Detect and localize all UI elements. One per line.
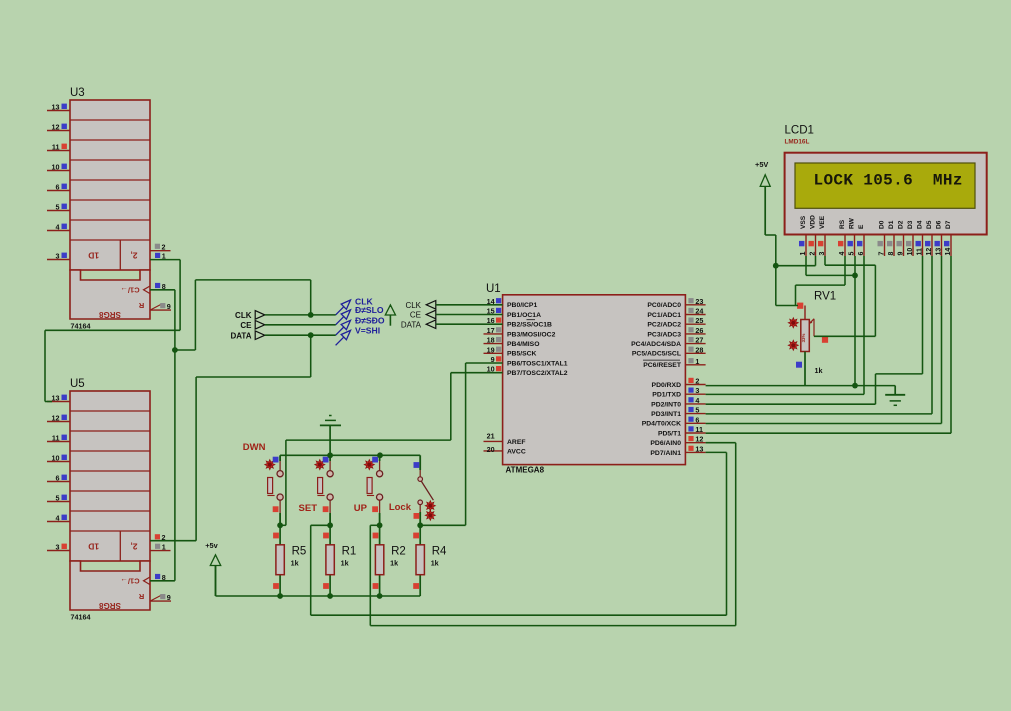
LCD1 pin 9 D2 xyxy=(897,220,905,256)
U1 pin 10 PB7/TOSC2/XTAL2 xyxy=(487,365,568,377)
LCD1 pin 3 VEE xyxy=(818,215,826,256)
svg-text:UP: UP xyxy=(354,503,368,514)
wire resistor bottom rail xyxy=(216,566,421,597)
svg-text:U5: U5 xyxy=(70,378,85,390)
svg-text:R: R xyxy=(138,301,144,310)
svg-text:CLK: CLK xyxy=(235,311,252,320)
wire +5V to VDD and RV1 top xyxy=(765,235,815,306)
output terminal CE xyxy=(240,321,264,331)
svg-text:10: 10 xyxy=(907,248,914,256)
wire junction to U5 pin8 xyxy=(150,350,175,581)
svg-text:13: 13 xyxy=(52,102,60,111)
U5 pin 4 xyxy=(47,513,70,522)
svg-text:D6: D6 xyxy=(936,220,943,229)
U1 pin 23 PC0/ADC0 xyxy=(647,297,705,309)
U3 pin 2 (unconnected stub) xyxy=(150,243,171,252)
svg-text:PB3/MOSI/OC2: PB3/MOSI/OC2 xyxy=(507,331,556,338)
U3 pin 12 xyxy=(47,122,70,131)
svg-text:R1: R1 xyxy=(342,546,357,558)
U1 pin 11 PD5/T1 xyxy=(658,425,706,437)
potentiometer RV1 1k xyxy=(788,291,836,386)
wire U1 PD4 to LCD D6 xyxy=(706,256,942,424)
svg-text:SRG8: SRG8 xyxy=(99,601,121,610)
svg-text:26: 26 xyxy=(695,326,703,335)
LCD1 pin 1 VSS xyxy=(799,215,807,256)
U3 pin 13 xyxy=(47,102,70,111)
wire U1 PD5 to LCD D7 xyxy=(706,256,951,433)
svg-text:PC4/ADC4/SDA: PC4/ADC4/SDA xyxy=(631,341,681,348)
svg-text:VEE: VEE xyxy=(819,215,826,229)
U3 pin 8 clock wedge xyxy=(144,282,166,294)
wire U1 PB6 to Lock node xyxy=(420,363,502,525)
U3 pin 10 xyxy=(47,162,70,171)
input terminal CE xyxy=(410,310,436,320)
svg-text:R: R xyxy=(138,592,144,601)
svg-text:+5V: +5V xyxy=(755,160,768,169)
svg-text:23: 23 xyxy=(695,297,703,306)
junction DATA xyxy=(308,332,314,338)
svg-text:6: 6 xyxy=(858,252,865,256)
svg-text:PC0/ADC0: PC0/ADC0 xyxy=(647,302,681,309)
resistor R4 1k xyxy=(413,525,447,596)
svg-text:1k: 1k xyxy=(291,559,299,568)
wire junction to CLK line xyxy=(175,280,311,350)
U1 pin 4 PD2/INT0 xyxy=(651,396,705,408)
svg-text:3: 3 xyxy=(56,251,60,260)
svg-text:CLK: CLK xyxy=(405,301,421,310)
svg-text:9: 9 xyxy=(167,593,171,602)
svg-text:D0: D0 xyxy=(879,220,886,229)
U3 pin 4 xyxy=(47,222,70,231)
wire U1 PD2 to LCD D4 xyxy=(706,256,923,404)
junction CLK xyxy=(308,312,314,318)
LCD1 pin 5 RW xyxy=(848,217,856,256)
IC U3 74164 shift register xyxy=(70,87,150,331)
wire U3 pin1 run to U5 pin13 xyxy=(45,330,180,401)
junction rail/UP xyxy=(377,452,383,458)
wire button top rail xyxy=(280,454,420,456)
svg-text:C1/→: C1/→ xyxy=(120,577,139,586)
svg-text:PD1/TXD: PD1/TXD xyxy=(652,392,681,399)
U1 pin 19 PB5/SCK xyxy=(484,345,537,357)
svg-text:PC3/ADC3: PC3/ADC3 xyxy=(647,331,681,338)
svg-text:5: 5 xyxy=(849,252,856,256)
U1 pin 6 PD4/T0/XCK xyxy=(642,415,706,427)
svg-text:Ð≠SLO: Ð≠SLO xyxy=(355,305,384,315)
U5 pin 12 xyxy=(47,413,70,422)
U5 pin 11 xyxy=(47,433,70,442)
svg-text:U1: U1 xyxy=(486,283,501,295)
svg-text:PB2/SS/OC1B: PB2/SS/OC1B xyxy=(507,322,552,329)
svg-text:18: 18 xyxy=(487,336,495,345)
output terminal CLK xyxy=(235,311,265,321)
svg-text:13: 13 xyxy=(695,444,703,453)
wire U3 pin8 to junction xyxy=(150,290,175,350)
svg-text:PD7/AIN1: PD7/AIN1 xyxy=(650,450,681,457)
net label arrow (overlapped) xyxy=(336,305,384,325)
U1 pin 20 AVCC xyxy=(484,445,526,456)
wire U1 PD1 to LCD E xyxy=(706,256,864,394)
wire U1 PB7 to DWN node xyxy=(280,373,503,526)
wire LCD RW to ground rail xyxy=(854,256,856,386)
svg-text:PB4/MISO: PB4/MISO xyxy=(507,341,539,348)
svg-text:9: 9 xyxy=(898,252,905,256)
wire U1 PD6 to UP node xyxy=(370,443,735,626)
U5 pin 3 xyxy=(47,542,70,551)
junction +5V/VDD xyxy=(773,263,779,269)
svg-text:V=SHI: V=SHI xyxy=(355,325,380,335)
U5 pin 1 (unconnected stub) xyxy=(150,543,171,552)
junction SET/R1 xyxy=(327,522,333,528)
U1 pin 25 PC2/ADC2 xyxy=(647,316,705,328)
svg-text:2,: 2, xyxy=(130,250,137,260)
svg-text:ATMEGA8: ATMEGA8 xyxy=(506,466,545,475)
wire CE terminal line xyxy=(265,324,336,326)
svg-text:D3: D3 xyxy=(907,220,914,229)
svg-text:28: 28 xyxy=(695,345,703,354)
U1 pin 1 PC6/RESET xyxy=(643,357,706,369)
svg-text:PC6/RESET: PC6/RESET xyxy=(643,362,682,369)
svg-text:20: 20 xyxy=(487,445,495,454)
svg-text:1k: 1k xyxy=(341,559,349,568)
svg-text:PD5/T1: PD5/T1 xyxy=(658,430,681,437)
svg-text:PC5/ADC5/SCL: PC5/ADC5/SCL xyxy=(632,351,681,358)
svg-text:LMD16L: LMD16L xyxy=(785,139,810,146)
svg-text:14: 14 xyxy=(945,248,952,256)
svg-text:2,: 2, xyxy=(130,541,137,551)
U1 pin 21 AREF xyxy=(484,432,526,446)
svg-text:1k: 1k xyxy=(815,366,823,375)
U1 pin 28 PC5/ADC5/SCL xyxy=(632,345,706,357)
U1 pin 2 PD0/RXD xyxy=(652,377,706,389)
resistor R1 1k xyxy=(323,525,356,596)
svg-text:R4: R4 xyxy=(432,546,447,558)
junction UP/R2 xyxy=(377,522,383,528)
svg-text:R5: R5 xyxy=(292,546,307,558)
push button DWN xyxy=(243,442,283,525)
U3 pin 1 xyxy=(155,252,166,261)
wire U3 pin1 to bus xyxy=(150,260,180,331)
wire LCD VEE to RV1 wiper xyxy=(814,256,875,336)
U3 pin 11 xyxy=(47,142,70,151)
svg-text:PB5/SCK: PB5/SCK xyxy=(507,351,537,358)
wire U1 PD0 ground rail xyxy=(706,385,896,387)
svg-text:SET: SET xyxy=(299,503,318,514)
junction Lock/R4 xyxy=(417,522,423,528)
svg-text:21: 21 xyxy=(487,432,495,441)
wire CE to U1 PB1 xyxy=(436,314,503,316)
ground (LCD area) xyxy=(885,386,905,406)
LCD1 pin 2 VDD xyxy=(809,215,817,256)
svg-text:24: 24 xyxy=(695,307,703,316)
svg-text:VDD: VDD xyxy=(810,215,817,229)
U5 pin 9 (unconnected stub) xyxy=(150,593,171,602)
svg-text:1k: 1k xyxy=(390,559,398,568)
U1 pin 5 PD3/INT1 xyxy=(651,406,705,418)
net label arrow V=SHI xyxy=(336,325,380,345)
svg-text:3: 3 xyxy=(695,386,699,395)
svg-text:6: 6 xyxy=(56,473,60,482)
wire CLK terminal line xyxy=(265,314,336,316)
svg-text:PD6/AIN0: PD6/AIN0 xyxy=(650,440,681,447)
U5 pin 13 xyxy=(47,393,70,402)
svg-text:U3: U3 xyxy=(70,87,85,99)
power symbol +5v (buttons area) xyxy=(205,541,221,596)
svg-text:PB1/OC1A: PB1/OC1A xyxy=(507,312,541,319)
svg-text:CE: CE xyxy=(240,321,252,330)
svg-text:12: 12 xyxy=(695,435,703,444)
U1 pin 18 PB4/MISO xyxy=(484,336,540,348)
U1 pin 14 PB0/ICP1 xyxy=(487,297,538,309)
LCD1 pin 13 D6 xyxy=(935,220,943,256)
svg-text:2: 2 xyxy=(810,252,817,256)
svg-text:D1: D1 xyxy=(888,220,895,229)
svg-text:6: 6 xyxy=(56,182,60,191)
svg-text:11: 11 xyxy=(917,248,924,256)
svg-text:DWN: DWN xyxy=(243,442,266,453)
push button SET xyxy=(299,455,334,525)
svg-text:3: 3 xyxy=(819,252,826,256)
svg-text:+5v: +5v xyxy=(205,541,218,550)
LCD1 pin 7 D0 xyxy=(878,220,886,256)
svg-text:LOCK 105.6 MHz: LOCK 105.6 MHz xyxy=(814,172,963,190)
svg-text:12: 12 xyxy=(52,413,60,422)
svg-text:6: 6 xyxy=(695,415,699,424)
U1 pin 24 PC1/ADC1 xyxy=(647,307,705,319)
svg-text:C1/→: C1/→ xyxy=(120,286,139,295)
junction VSS/RW xyxy=(852,273,858,279)
svg-text:PD2/INT0: PD2/INT0 xyxy=(651,401,681,408)
LCD1 pin 6 E xyxy=(857,224,865,256)
LCD1 pin 8 D1 xyxy=(887,220,895,256)
svg-text:PC2/ADC2: PC2/ADC2 xyxy=(647,322,681,329)
power symbol +5V (LCD area) xyxy=(755,160,770,235)
svg-text:Lock: Lock xyxy=(389,502,412,513)
svg-text:4: 4 xyxy=(695,396,699,405)
junction rail/SET xyxy=(327,452,333,458)
junction rail/R1 xyxy=(327,593,333,599)
svg-text:PB6/TOSC1/XTAL1: PB6/TOSC1/XTAL1 xyxy=(507,360,568,367)
U5 pin 2 xyxy=(155,533,166,542)
U1 pin 9 PB6/TOSC1/XTAL1 xyxy=(491,355,568,367)
U3 pin 5 xyxy=(47,202,70,211)
wire CLK to U1 PB0 xyxy=(436,304,503,306)
svg-text:R2: R2 xyxy=(391,546,406,558)
svg-text:17: 17 xyxy=(487,326,495,335)
svg-text:1: 1 xyxy=(162,543,166,552)
LCD1 pin 14 D7 xyxy=(944,220,952,256)
U3 pin 3 xyxy=(47,251,70,260)
IC U5 74164 shift register xyxy=(70,378,150,622)
junction U3 clock node xyxy=(172,347,178,353)
svg-text:4: 4 xyxy=(56,513,60,522)
U1 pin 3 PD1/TXD xyxy=(652,386,705,398)
svg-text:AVCC: AVCC xyxy=(507,449,526,456)
svg-text:74164: 74164 xyxy=(71,613,91,622)
svg-text:11: 11 xyxy=(52,433,60,442)
svg-text:2: 2 xyxy=(695,377,699,386)
input terminal CLK xyxy=(405,301,435,311)
junction DWN/R5 xyxy=(277,522,283,528)
wire DATA to U1 PB2 xyxy=(436,323,503,325)
svg-text:7: 7 xyxy=(879,252,886,256)
svg-text:2: 2 xyxy=(162,243,166,252)
LCD1 pin 4 RS xyxy=(838,219,846,256)
svg-text:9: 9 xyxy=(167,302,171,311)
svg-text:25: 25 xyxy=(695,316,703,325)
U1 pin 13 PD7/AIN1 xyxy=(650,444,705,456)
IC U1 ATMEGA8 microcontroller body xyxy=(486,283,685,475)
U1 pin 26 PC3/ADC3 xyxy=(647,326,705,338)
wire DATA terminal line xyxy=(265,334,336,336)
svg-text:10: 10 xyxy=(52,453,60,462)
svg-text:1: 1 xyxy=(695,357,699,366)
wire LCD RS to RV1 top xyxy=(796,256,846,306)
U5 pin 8 clock wedge xyxy=(144,573,166,585)
svg-text:3: 3 xyxy=(56,542,60,551)
svg-text:1D: 1D xyxy=(88,541,99,551)
U1 pin 15 PB1/OC1A xyxy=(487,307,541,319)
U5 pin 10 xyxy=(47,453,70,462)
svg-text:D2: D2 xyxy=(898,220,905,229)
input terminal DATA xyxy=(401,320,436,330)
junction rail/R5 xyxy=(277,593,283,599)
svg-text:D4: D4 xyxy=(917,220,924,229)
svg-text:E: E xyxy=(858,224,865,229)
svg-text:27: 27 xyxy=(695,336,703,345)
svg-text:RV1: RV1 xyxy=(814,291,836,303)
wire DATA to U5 pin2 xyxy=(150,335,311,541)
svg-text:PD3/INT1: PD3/INT1 xyxy=(651,411,681,418)
svg-text:DATA: DATA xyxy=(230,331,251,340)
svg-text:VSS: VSS xyxy=(800,215,807,229)
svg-text:1D: 1D xyxy=(88,250,99,260)
svg-text:PC1/ADC1: PC1/ADC1 xyxy=(647,312,681,319)
svg-text:PB0/ICP1: PB0/ICP1 xyxy=(507,302,537,309)
svg-text:DATA: DATA xyxy=(401,320,422,329)
U5 pin 5 xyxy=(47,493,70,502)
svg-text:SRG8: SRG8 xyxy=(99,310,121,319)
wire U1 PD7 to SET node xyxy=(311,452,727,615)
LCD1 LMD16L display module xyxy=(785,125,987,235)
svg-text:RW: RW xyxy=(849,217,856,229)
svg-text:AREF: AREF xyxy=(507,439,526,446)
svg-text:1: 1 xyxy=(800,252,807,256)
svg-text:5: 5 xyxy=(56,493,60,502)
svg-text:13: 13 xyxy=(52,393,60,402)
svg-text:1k: 1k xyxy=(431,559,439,568)
svg-text:11: 11 xyxy=(695,425,703,434)
ground (buttons area, flipped) xyxy=(320,416,341,456)
svg-text:5: 5 xyxy=(695,406,699,415)
net label arrow (overlapped) xyxy=(336,315,385,335)
svg-text:PD4/T0/XCK: PD4/T0/XCK xyxy=(642,421,681,428)
wire LCD VSS to RW xyxy=(806,256,855,275)
resistor R2 1k xyxy=(373,525,406,596)
svg-text:PB7/TOSC2/XTAL2: PB7/TOSC2/XTAL2 xyxy=(507,370,568,377)
svg-text:13: 13 xyxy=(936,248,943,256)
switch Lock xyxy=(389,455,435,525)
svg-text:11: 11 xyxy=(52,142,60,151)
output terminal DATA xyxy=(230,331,264,341)
push button UP xyxy=(354,455,383,525)
svg-text:74164: 74164 xyxy=(71,322,91,331)
svg-text:LCD1: LCD1 xyxy=(785,125,814,137)
svg-text:D5: D5 xyxy=(926,220,933,229)
net label arrow CLK xyxy=(336,296,374,315)
resistor R5 1k xyxy=(273,525,306,596)
junction rail/R2 xyxy=(377,593,383,599)
U3 pin 6 xyxy=(47,182,70,191)
svg-text:8: 8 xyxy=(888,252,895,256)
LCD1 pin 10 D3 xyxy=(906,220,914,256)
wire U1 PD3 to LCD D5 xyxy=(706,256,932,414)
U1 pin 12 PD6/AIN0 xyxy=(650,435,705,447)
svg-text:Ð≠SÐO: Ð≠SÐO xyxy=(355,315,385,325)
U1 pin 16 PB2/SS/OC1B xyxy=(487,316,552,328)
U5 pin 6 xyxy=(47,473,70,482)
power arrow symbol (mid sheet) xyxy=(385,305,395,326)
svg-text:12: 12 xyxy=(52,122,60,131)
svg-text:10: 10 xyxy=(52,162,60,171)
LCD1 pin 11 D4 xyxy=(916,220,924,256)
svg-text:D7: D7 xyxy=(945,220,952,229)
U1 pin 17 PB3/MOSI/OC2 xyxy=(484,326,556,338)
svg-text:PD0/RXD: PD0/RXD xyxy=(652,382,682,389)
junction RW/ground rail xyxy=(852,383,858,389)
svg-text:CE: CE xyxy=(410,311,421,320)
U1 pin 27 PC4/ADC4/SDA xyxy=(631,336,705,348)
svg-text:19: 19 xyxy=(487,345,495,354)
U3 pin 9 (unconnected stub) xyxy=(150,302,171,311)
LCD1 pin 12 D5 xyxy=(925,220,933,256)
svg-text:5: 5 xyxy=(56,202,60,211)
svg-text:4: 4 xyxy=(839,252,846,256)
svg-text:12: 12 xyxy=(926,248,933,256)
svg-text:4: 4 xyxy=(56,222,60,231)
svg-text:33%: 33% xyxy=(801,334,806,343)
svg-text:RS: RS xyxy=(839,219,846,229)
